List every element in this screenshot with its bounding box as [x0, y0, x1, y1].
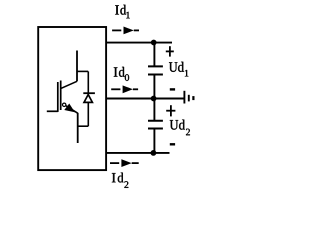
arrow Id0 [111, 85, 138, 93]
label Id2 [112, 173, 128, 188]
label Id0 [114, 67, 129, 81]
IGBT collector diagonal [61, 81, 77, 88]
IGBT body bar (right) [60, 81, 62, 111]
wire bus top to C1 [153, 43, 155, 67]
node middle junction [151, 96, 157, 102]
IGBT emitter diagonal [66, 106, 78, 114]
converter box outline [38, 27, 106, 170]
wire top dc rail [106, 42, 172, 44]
IGBT collector lead [76, 51, 78, 82]
IGBT gate lead [47, 110, 58, 112]
arrow Id1 [112, 27, 139, 35]
wire C1 to middle node [153, 75, 155, 99]
wire bottom branch from emitter [78, 125, 89, 127]
label minus Ud1 [170, 88, 175, 90]
diode cathode bar [83, 92, 95, 94]
diode triangle [84, 95, 92, 103]
capacitor Ud2 plates [148, 121, 163, 129]
wire top branch to diode [77, 70, 88, 72]
wire middle node to C2 [153, 99, 155, 121]
ground [184, 91, 193, 104]
wire bottom dc rail [106, 152, 170, 154]
IGBT emitter lead [77, 113, 79, 143]
label plus Ud1 [166, 46, 174, 56]
IGBT emitter arrowhead [65, 104, 74, 111]
label Ud1 [169, 62, 188, 77]
label plus Ud2 [166, 105, 175, 116]
IGBT gate bar (left) [57, 82, 59, 112]
label Ud2 [170, 120, 190, 136]
arrow Id2 [110, 159, 139, 167]
diode cathode lead [87, 71, 89, 93]
wire C2 to bottom node [153, 129, 155, 153]
label Id1 [115, 5, 130, 19]
label minus Ud2 [170, 143, 175, 145]
capacitor Ud1 plates [148, 66, 163, 74]
IGBT emitter circle [62, 103, 65, 106]
diode anode lead [87, 103, 89, 127]
node top junction [151, 40, 157, 46]
wire middle rail to ground [106, 98, 184, 100]
node bottom junction [151, 150, 157, 156]
